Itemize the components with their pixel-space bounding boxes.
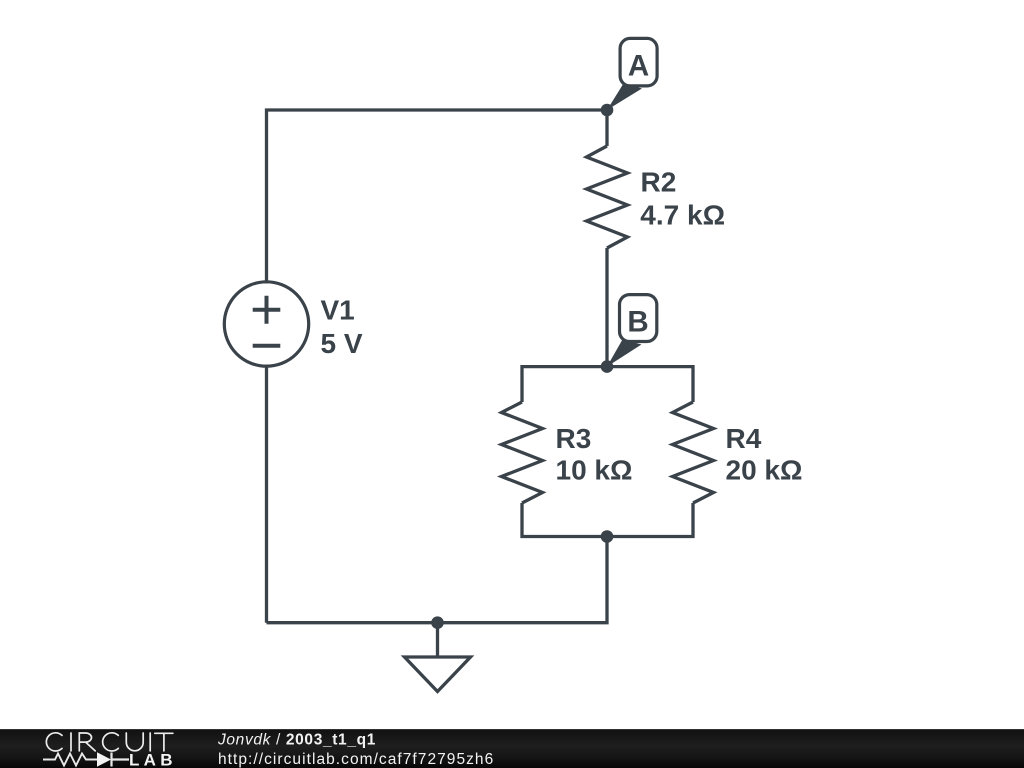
footer black bar — [0, 729, 1024, 768]
svg-text:LAB: LAB — [129, 751, 177, 768]
ground junction dot — [431, 616, 444, 629]
svg-text:Jonvdk / 2003_t1_q1: Jonvdk / 2003_t1_q1 — [217, 731, 376, 748]
svg-text:R4: R4 — [726, 423, 762, 454]
svg-text:20 kΩ: 20 kΩ — [726, 455, 803, 486]
svg-text:4.7 kΩ: 4.7 kΩ — [640, 199, 725, 230]
wire left vertical from V1 bottom to bottom rail — [265, 365, 268, 623]
wire parallel block top rail with R3 and R4 top leads — [522, 367, 693, 402]
ground triangle symbol — [405, 657, 471, 692]
CircuitLab logo resistor squiggle and wire — [43, 754, 97, 766]
svg-text:5 V: 5 V — [321, 328, 363, 359]
svg-text:A: A — [628, 50, 649, 83]
V1 minus sign — [253, 344, 281, 348]
CircuitLab logo diode cathode bar — [112, 753, 130, 767]
svg-text:10 kΩ: 10 kΩ — [556, 455, 633, 486]
wire R2 top lead from node A — [605, 110, 608, 146]
svg-text:V1: V1 — [321, 294, 355, 325]
resistor R2 zigzag — [587, 146, 628, 248]
svg-text:http://circuitlab.com/caf7f727: http://circuitlab.com/caf7f72795zh6 — [218, 751, 494, 768]
node B junction dot — [601, 360, 614, 373]
node A label box — [620, 38, 657, 86]
node A pointer wedge — [607, 84, 642, 111]
svg-text:R2: R2 — [641, 167, 677, 198]
resistor R4 zigzag — [673, 402, 714, 503]
footer bar top highlight line — [0, 729, 1024, 730]
svg-text:B: B — [627, 306, 648, 339]
svg-text:R3: R3 — [556, 423, 592, 454]
junction dot bottom of parallel block — [601, 530, 614, 543]
wire R2 bottom lead to node B — [605, 248, 608, 367]
node A junction dot — [601, 104, 614, 117]
wire bottom rail — [267, 537, 608, 623]
node B label box — [620, 295, 657, 342]
node B pointer wedge — [607, 340, 642, 367]
ground stub wire — [436, 623, 439, 657]
CircuitLab logo CIRCUIT word drawn as thin strokes — [46, 733, 173, 751]
voltage source V1 circle — [224, 282, 308, 366]
CircuitLab logo diode symbol — [97, 752, 111, 767]
V1 plus sign — [253, 296, 281, 324]
resistor R3 zigzag — [502, 402, 543, 503]
wire top rail from V1 branch to node A — [267, 110, 608, 284]
wire parallel block bottom rail with R3 and R4 bottom leads — [522, 503, 693, 537]
